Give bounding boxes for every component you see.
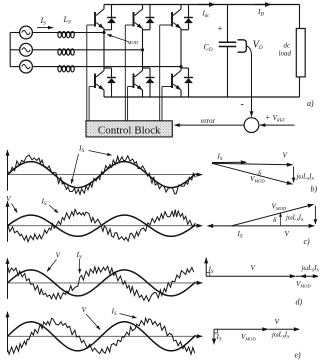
label Ls: [63, 15, 71, 26]
waveform V panel d: [8, 270, 196, 296]
label Is panel b with leaders: [71, 144, 112, 185]
transistor S1 (top, leg 1): [95, 5, 104, 31]
wire gate lead S5 to control block: [128, 87, 134, 121]
waveform Is (pwm current) panel d: [8, 266, 194, 301]
voltage probe VD: [238, 40, 252, 56]
label + VREF with arrow: [260, 113, 295, 127]
phasor e label V: [275, 318, 281, 326]
wire bottom emitter to DC- leg 3: [181, 91, 189, 98]
diode D3 (top, leg 3): [184, 5, 193, 30]
label VMOD with arrow: [107, 34, 139, 45]
phasor c label V: [285, 230, 291, 238]
label - (summer input): [241, 99, 244, 110]
svg-text:+: +: [218, 24, 223, 34]
node phase B junction: [141, 48, 144, 51]
svg-text:e): e): [295, 351, 302, 360]
waveform V panel b: [8, 162, 196, 188]
label CD: [204, 43, 213, 54]
wire gate lead S2 to control block: [125, 25, 133, 121]
phasor c angle tick: [279, 213, 282, 226]
transistor S3 (top, leg 3): [172, 5, 181, 31]
node phase C junction: [179, 65, 182, 68]
svg-text:load: load: [279, 50, 292, 58]
label Idc with arrow: [198, 2, 216, 19]
svg-text:c): c): [304, 237, 311, 246]
wire bottom collector-diode junction leg 3: [181, 67, 189, 69]
label Is with arrow (source current): [37, 16, 54, 29]
diode D2 (top, leg 2): [146, 5, 155, 30]
transistor S2 (top, leg 2): [134, 5, 143, 31]
wire bottom collector-diode junction leg 1: [104, 67, 112, 69]
phasor b label V: [283, 152, 289, 160]
wire gate lead S6 to control block: [162, 87, 172, 121]
label e): [295, 351, 302, 360]
label V panel c with leader: [6, 194, 18, 213]
wire VD sense to summer: [250, 56, 254, 117]
ac source Vc: [20, 60, 33, 73]
wire top emitter-diode junction leg 3: [181, 29, 189, 31]
phasor diagram b: vector jwLsIs: [292, 167, 296, 183]
phasor e right-angle mark: [214, 329, 218, 333]
phasor diagram d: vector VMOD: [296, 274, 319, 278]
wire phase A: [32, 32, 104, 34]
wire DC- rail: [104, 96, 300, 98]
waveform Is (pwm current) panel e: [8, 318, 195, 354]
label VD: [253, 40, 263, 52]
phasor diagram b: vector VMOD: [212, 163, 293, 185]
phasor e label jwLsIs: [271, 332, 290, 339]
wire DC+ rail: [104, 4, 300, 6]
phasor d label jwLsIs: [301, 265, 320, 272]
phasor diagram d: vector V: [206, 274, 296, 278]
phasor b label Is: [217, 153, 223, 163]
phasor diagram d: vector Is: [204, 257, 208, 276]
wire bottom collector-diode junction leg 2: [143, 67, 151, 69]
phasor b label VMOD: [250, 175, 265, 184]
diode D5 (bottom, leg 2): [146, 68, 155, 93]
phasor diagram c: vector Is: [207, 224, 232, 228]
svg-text:dc: dc: [284, 42, 292, 50]
label a): [307, 99, 314, 108]
neutral bus wire: [10, 33, 19, 67]
diode D6 (bottom, leg 3): [184, 68, 193, 93]
label dc load: [279, 42, 292, 58]
wire phase B: [32, 49, 142, 51]
summing junction: [244, 118, 259, 133]
svg-text:+: +: [266, 113, 271, 122]
phasor diagram e: vector V / jwLsIs: [269, 327, 301, 331]
phasor d label Is: [208, 266, 214, 276]
capacitor CD: [219, 5, 237, 98]
inductor Ls phase C: [57, 66, 76, 72]
wire top emitter-diode junction leg 2: [143, 29, 151, 31]
phasor e label Is: [216, 333, 222, 343]
phasor b label delta: [258, 170, 262, 178]
label d): [296, 298, 303, 307]
wire gate lead S3 to control block: [160, 25, 172, 121]
phasor c label jwLsIs: [285, 215, 304, 222]
label ID with arrow: [254, 2, 272, 18]
phasor diagram d: vector jwLsIs (pointing left): [300, 274, 306, 278]
wire bottom emitter to DC- leg 2: [143, 91, 151, 98]
phasor diagram e: vector VMOD: [214, 327, 269, 331]
wire phase C: [32, 66, 181, 68]
axes waveform panel c: [6, 201, 204, 242]
phasor d label VMOD: [296, 280, 311, 289]
wire leg 2 midpoint: [142, 30, 144, 68]
ac source Vb: [20, 43, 33, 56]
axes waveform panel d: [6, 258, 204, 299]
label b): [311, 185, 318, 194]
wire top emitter-diode junction leg 1: [104, 29, 112, 31]
phasor diagram c: vector VMOD: [232, 204, 315, 226]
phasor diagram c: vector V: [232, 224, 315, 228]
axes waveform panel e: [6, 311, 204, 352]
phasor c label Is: [237, 230, 243, 240]
phasor b label jwLsIs: [296, 174, 315, 181]
svg-text:error: error: [201, 117, 216, 125]
phasor d label V: [251, 264, 257, 272]
ac source Va: [20, 26, 33, 39]
axes waveform panel b: [6, 150, 204, 191]
waveform Is (pwm current) panel b: [8, 155, 196, 194]
label c): [304, 237, 311, 246]
wire gate lead S4 to control block: [89, 87, 95, 121]
phasor diagram e: vector Is: [212, 329, 216, 345]
svg-text:a): a): [307, 99, 314, 108]
phasor d right-angle mark: [206, 272, 210, 276]
diode D1 (top, leg 1): [107, 5, 116, 30]
control block: [86, 121, 172, 137]
waveform V panel c: [8, 215, 196, 236]
svg-text:Control Block: Control Block: [98, 125, 161, 137]
phasor c label VMOD: [272, 203, 287, 212]
svg-text:-: -: [241, 99, 244, 110]
label Is panel e with leader: [111, 307, 138, 319]
wire leg 1 midpoint: [103, 30, 105, 68]
label error with arrow: [174, 117, 244, 127]
transistor S5 (bottom, leg 2): [134, 66, 143, 92]
waveform Is (pwm current) panel c: [8, 209, 196, 241]
phasor c label delta: [273, 216, 277, 224]
svg-text:b): b): [311, 185, 318, 194]
transistor S6 (bottom, leg 3): [172, 66, 181, 92]
resistor dc load: [296, 5, 305, 98]
wire gate lead S1 to control block: [87, 25, 95, 121]
svg-text:MOD: MOD: [127, 40, 139, 45]
label Is panel c with leader: [41, 197, 59, 214]
label V panel e with leader: [82, 305, 101, 330]
inductor Ls phase B: [57, 49, 76, 55]
waveform V panel e: [8, 322, 196, 351]
wire bottom emitter to DC- leg 1: [104, 91, 112, 98]
wire leg 3 midpoint: [180, 30, 182, 68]
phasor e label VMOD: [241, 333, 256, 342]
transistor S4 (bottom, leg 1): [95, 66, 104, 92]
label Is panel d with leader: [76, 250, 83, 274]
label V panel d with leader: [47, 251, 62, 272]
node phase A junction: [102, 31, 105, 34]
label + (dc bus polarity): [218, 24, 223, 34]
diode D4 (bottom, leg 1): [107, 68, 116, 93]
phasor diagram c: vector jwLsIs: [314, 206, 318, 225]
inductor Ls phase A: [57, 32, 76, 38]
phasor diagram b: vector Is: [212, 160, 247, 164]
phasor diagram b: vector V: [212, 163, 293, 167]
svg-text:d): d): [296, 298, 303, 307]
